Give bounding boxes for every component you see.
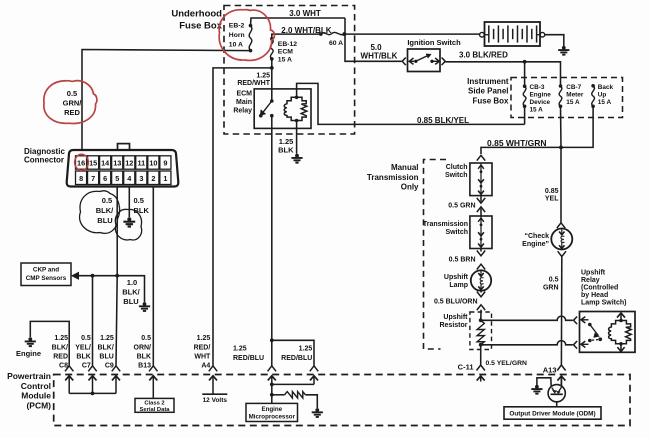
svg-text:2: 2 bbox=[151, 174, 155, 183]
transmission switch box bbox=[470, 216, 492, 249]
vertical 3.0 WHT drop bbox=[344, 18, 346, 34]
wire: 0.5 GRN down to A13 bbox=[560, 257, 562, 366]
ground (1.0 BLK/BLU) bbox=[139, 302, 150, 311]
label: A13 bbox=[543, 365, 557, 374]
ignition switch contacts bbox=[409, 54, 440, 64]
label: 0.5 GRN/RED bbox=[63, 89, 83, 117]
svg-text:0.5: 0.5 bbox=[102, 196, 112, 205]
junction: RED/BLU split bbox=[270, 338, 274, 342]
label: 0.5 GRN bbox=[448, 202, 475, 209]
svg-text:Resistor: Resistor bbox=[439, 322, 467, 329]
svg-text:WHT: WHT bbox=[194, 354, 211, 361]
label: 1.25 RED/WHT bbox=[237, 73, 270, 88]
svg-text:Relay: Relay bbox=[233, 107, 252, 114]
wire: 0.85 YEL down to check engine bbox=[560, 147, 562, 222]
wire: EB-12 to relay and A4 branch bbox=[271, 59, 273, 101]
wire: 3.0 BLK/RED bbox=[445, 62, 560, 86]
svg-text:EB-2: EB-2 bbox=[229, 23, 245, 30]
connector half (relay upper) bbox=[574, 317, 578, 325]
svg-text:RED: RED bbox=[53, 354, 68, 361]
svg-text:1.25: 1.25 bbox=[233, 346, 247, 353]
manual transmission only dashed outline bbox=[424, 160, 447, 350]
svg-text:Fuse Box: Fuse Box bbox=[472, 96, 509, 105]
svg-text:Class 2: Class 2 bbox=[144, 401, 164, 407]
wire: 5.0 WHT/BLK to ignition switch bbox=[345, 34, 402, 61]
svg-text:9: 9 bbox=[163, 159, 167, 168]
svg-text:BLK: BLK bbox=[278, 145, 294, 154]
svg-text:3.0 WHT: 3.0 WHT bbox=[289, 9, 321, 18]
wire: 1.25 BLK/RED C8 to engine ground bbox=[30, 321, 69, 365]
wire: 2.0 WHT/BLK (EB-12 top to 60A link) bbox=[272, 34, 321, 39]
wire: pin 2 down (0.5 ORN/BLK B13) bbox=[152, 187, 154, 366]
svg-text:Fuse Box: Fuse Box bbox=[179, 20, 222, 31]
svg-text:RED: RED bbox=[64, 108, 80, 117]
label: Upshift Lamp bbox=[444, 274, 469, 289]
svg-text:0.5: 0.5 bbox=[141, 335, 151, 342]
svg-text:BLK/: BLK/ bbox=[52, 344, 68, 351]
svg-text:YEL/: YEL/ bbox=[75, 344, 91, 351]
svg-text:by Head: by Head bbox=[581, 292, 608, 299]
svg-text:Main: Main bbox=[236, 99, 252, 106]
CKP and CMP sensors box bbox=[21, 263, 71, 286]
wire: 0.5 GRN/RED (EB-2 bottom to pin 16) bbox=[82, 50, 251, 150]
fusible link 60 A bbox=[319, 32, 346, 47]
transmission switch symbol bbox=[478, 216, 484, 249]
svg-text:12 Volts: 12 Volts bbox=[203, 397, 228, 404]
svg-text:RED/WHT: RED/WHT bbox=[237, 80, 270, 87]
svg-text:B13: B13 bbox=[138, 363, 151, 370]
connector above clutch switch bbox=[477, 155, 485, 160]
svg-text:Switch: Switch bbox=[445, 172, 468, 179]
svg-text:Lamp Switch): Lamp Switch) bbox=[581, 299, 627, 306]
connector half (ignition input) bbox=[402, 58, 406, 66]
wire: 0.5 YEL/BLK C7 bbox=[92, 276, 94, 366]
svg-text:BLK/: BLK/ bbox=[96, 206, 114, 215]
wire: battery to ground bbox=[545, 35, 564, 47]
svg-text:11: 11 bbox=[137, 159, 145, 168]
svg-text:YEL: YEL bbox=[545, 195, 559, 202]
svg-text:Engine”: Engine” bbox=[522, 241, 549, 248]
svg-text:C-11: C-11 bbox=[458, 362, 474, 371]
label: Underhood Fuse Box bbox=[171, 9, 222, 32]
svg-text:CMP Sensors: CMP Sensors bbox=[26, 275, 67, 282]
svg-text:BLU: BLU bbox=[99, 354, 113, 361]
hand-drawn loop around 0.5 BLK/BLU bbox=[80, 191, 120, 233]
label: 1.25 RED/BLU (right) bbox=[281, 346, 312, 362]
wire: transistor to ODM box bbox=[556, 402, 558, 407]
svg-text:RED/BLU: RED/BLU bbox=[281, 355, 312, 362]
svg-text:0.85 WHT/GRN: 0.85 WHT/GRN bbox=[487, 138, 547, 148]
svg-text:15 A: 15 A bbox=[530, 106, 544, 113]
junction: microprocessor feed upper bbox=[270, 383, 274, 387]
svg-text:ECM: ECM bbox=[278, 49, 293, 56]
label: C-11 bbox=[458, 362, 474, 371]
connector pair below transmission bbox=[477, 249, 485, 270]
label: 1.25 RED/BLU (left) bbox=[233, 346, 264, 362]
wire: relay switch output (1.25 RED/BLU run) bbox=[271, 116, 273, 341]
wire: RED/BLU left branch to PCM bbox=[271, 340, 273, 366]
svg-text:Underhood: Underhood bbox=[171, 9, 222, 20]
svg-text:Up: Up bbox=[598, 91, 607, 98]
svg-text:Upshift: Upshift bbox=[443, 314, 468, 321]
svg-text:EB-12: EB-12 bbox=[278, 41, 297, 48]
connector A13 at PCM bbox=[557, 365, 565, 386]
ignition switch box bbox=[408, 49, 441, 72]
label: ECM Main Relay bbox=[233, 90, 252, 114]
class 2 serial data box bbox=[135, 398, 174, 412]
upshift relay box bbox=[580, 312, 636, 353]
label: 0.5 YEL/BLK C7 bbox=[75, 335, 91, 370]
svg-text:GRN: GRN bbox=[543, 284, 559, 291]
svg-text:BLU: BLU bbox=[97, 216, 112, 225]
wire: right RED/BLU join bbox=[272, 383, 314, 385]
label: 1.0 BLK/BLU bbox=[122, 278, 140, 306]
svg-text:7: 7 bbox=[91, 174, 95, 183]
label: Check Engine bbox=[522, 233, 549, 248]
connector C-11 at PCM bbox=[477, 365, 485, 382]
svg-text:BLU: BLU bbox=[123, 297, 138, 306]
ground (ECM relay coil) bbox=[291, 154, 302, 163]
label: Transmission Switch bbox=[423, 221, 468, 236]
red loop around EB-2 fuse bbox=[219, 10, 274, 61]
junction to A4 branch bbox=[270, 66, 274, 70]
connector pair below clutch bbox=[477, 196, 485, 216]
label: Engine bbox=[16, 349, 41, 358]
svg-text:Engine: Engine bbox=[261, 406, 282, 413]
connector B13 into PCM bbox=[149, 366, 157, 399]
wire to battery + terminal bbox=[344, 33, 479, 35]
svg-text:0.5: 0.5 bbox=[134, 196, 144, 205]
wire: 1.25 BLK/BLU C9 bbox=[116, 276, 117, 366]
svg-text:3.0 BLK/RED: 3.0 BLK/RED bbox=[459, 50, 508, 59]
label: 3.0 WHT bbox=[289, 9, 321, 18]
connector half (relay lower) bbox=[574, 341, 578, 349]
svg-text:RED/BLU: RED/BLU bbox=[233, 355, 264, 362]
diagnostic connector pin cells bbox=[76, 156, 171, 185]
label: Clutch Switch bbox=[445, 164, 468, 179]
svg-text:Module: Module bbox=[21, 391, 51, 401]
svg-text:Ignition Switch: Ignition Switch bbox=[407, 38, 461, 47]
svg-text:60 A: 60 A bbox=[329, 40, 343, 47]
wire: 0.85 WHT/GRN to clutch column bbox=[481, 147, 561, 154]
relay switch contacts bbox=[259, 99, 274, 117]
wire: into engine microprocessor bbox=[271, 384, 273, 403]
svg-text:CB-3: CB-3 bbox=[530, 84, 545, 91]
wire: CB-7 down to WHT/GRN junction bbox=[560, 106, 563, 147]
svg-text:15 A: 15 A bbox=[278, 56, 292, 63]
svg-text:Engine: Engine bbox=[530, 91, 552, 98]
fuse Back Up 15A bbox=[591, 84, 613, 108]
svg-text:WHT/BLK: WHT/BLK bbox=[361, 52, 398, 61]
wire: coil to ground 1.25 BLK bbox=[296, 121, 298, 154]
upshift relay coil bbox=[609, 313, 632, 352]
connector below check engine lamp bbox=[558, 251, 566, 256]
red loop around pin 16 bbox=[75, 154, 89, 170]
check engine lamp bbox=[551, 229, 572, 250]
svg-text:Device: Device bbox=[530, 99, 551, 106]
svg-text:Meter: Meter bbox=[566, 91, 584, 98]
label: 1.25 RED/WHT A4 bbox=[194, 335, 211, 370]
wire: sensors line with arrow into box bbox=[72, 272, 145, 302]
svg-text:1: 1 bbox=[163, 174, 167, 183]
wire: RED/BLU right branch bbox=[272, 340, 314, 366]
label: 0.5 BLK/BLU bbox=[96, 196, 114, 225]
ground (battery) bbox=[558, 46, 569, 55]
label: 0.5 GRN (right) bbox=[543, 276, 559, 291]
svg-text:15: 15 bbox=[89, 159, 97, 168]
svg-text:0.5 BLU/ORN: 0.5 BLU/ORN bbox=[434, 298, 478, 305]
junction: pin5/C9 on sensor line bbox=[115, 274, 119, 278]
label: Manual Transmission Only bbox=[367, 163, 419, 192]
instrument side panel fuse box (dashed) bbox=[511, 78, 623, 118]
svg-text:BLK: BLK bbox=[137, 354, 151, 361]
fuse EB-12 ECM 15A bbox=[270, 37, 297, 63]
battery bbox=[480, 22, 545, 46]
svg-text:6: 6 bbox=[103, 174, 107, 183]
svg-text:ORN/: ORN/ bbox=[134, 344, 152, 351]
label: 0.5 BRN bbox=[449, 257, 476, 264]
svg-text:13: 13 bbox=[113, 159, 121, 168]
fuse EB-2 Horn 10A bbox=[229, 23, 253, 53]
connector RED/BLU left into PCM bbox=[268, 366, 276, 385]
svg-text:“Check: “Check bbox=[524, 233, 549, 240]
resistor to ground (PCM) bbox=[272, 392, 318, 408]
fuse CB-3 Engine Device 15A bbox=[523, 84, 551, 114]
svg-text:0.5: 0.5 bbox=[81, 335, 91, 342]
svg-text:Powertrain: Powertrain bbox=[7, 371, 51, 381]
relay switch blade bbox=[588, 323, 602, 343]
svg-text:Engine: Engine bbox=[16, 349, 41, 358]
junction: 3.0WHT/2.0WHT-BLK bbox=[342, 32, 346, 36]
label: Upshift Relay (Controlled by Head Lamp Switch) bbox=[581, 269, 627, 306]
svg-text:A4: A4 bbox=[201, 363, 210, 370]
wire: transistor emitter to ground bbox=[537, 378, 551, 387]
connector above check engine lamp bbox=[557, 223, 565, 228]
junction: resistor branch bbox=[270, 393, 274, 397]
svg-text:1.25: 1.25 bbox=[54, 335, 68, 342]
upshift resistor element bbox=[477, 318, 484, 346]
svg-text:Connector: Connector bbox=[24, 156, 64, 165]
svg-text:(PCM): (PCM) bbox=[26, 400, 51, 410]
svg-text:0.5 BRN: 0.5 BRN bbox=[449, 257, 476, 264]
svg-text:3: 3 bbox=[139, 174, 143, 183]
label: Diagnostic Connector bbox=[24, 147, 65, 165]
wire: pin 5 down (0.5 BLK/BLU) bbox=[116, 187, 118, 276]
label: 0.5 YEL/GRN bbox=[486, 360, 528, 367]
svg-text:1.25: 1.25 bbox=[100, 335, 114, 342]
svg-text:12: 12 bbox=[125, 159, 133, 168]
engine microprocessor box bbox=[246, 403, 298, 421]
svg-text:RED/: RED/ bbox=[194, 344, 211, 351]
svg-text:1.25: 1.25 bbox=[256, 73, 270, 80]
svg-text:10 A: 10 A bbox=[229, 42, 243, 49]
wire: resistor top to relay (with hop) bbox=[481, 316, 573, 320]
label: 1.25 BLK/RED C8 bbox=[52, 335, 68, 370]
svg-text:Upshift: Upshift bbox=[444, 274, 469, 281]
12 volts terminal bbox=[202, 394, 227, 404]
svg-text:Manual: Manual bbox=[391, 163, 419, 172]
connector C7 into PCM bbox=[88, 366, 96, 394]
wire: 1.25 RED/WHT down to PCM A4 bbox=[213, 68, 272, 366]
svg-text:Back: Back bbox=[598, 84, 614, 91]
wire: pin 4 to ground (0.5 BLK) bbox=[128, 187, 130, 218]
svg-text:Serial Data: Serial Data bbox=[140, 407, 171, 413]
svg-text:ECM: ECM bbox=[236, 90, 252, 97]
svg-text:BLK/: BLK/ bbox=[97, 344, 113, 351]
label: 0.5 BLU/ORN bbox=[434, 298, 478, 305]
svg-text:CKP and: CKP and bbox=[33, 267, 59, 274]
connector A4 into PCM bbox=[209, 366, 217, 394]
label: Instrument Side Panel Fuse Box bbox=[467, 77, 509, 105]
svg-text:14: 14 bbox=[101, 159, 110, 168]
connector RED/BLU right into PCM bbox=[310, 366, 318, 385]
label: 2.0 WHT/BLK bbox=[281, 26, 331, 35]
svg-text:Side Panel: Side Panel bbox=[468, 87, 508, 96]
svg-text:Upshift: Upshift bbox=[581, 269, 606, 276]
connector half (ignition output) bbox=[442, 58, 446, 66]
svg-text:1.0: 1.0 bbox=[127, 278, 137, 287]
junction: WHT/GRN node bbox=[559, 146, 563, 150]
upshift resistor dashed box bbox=[470, 312, 492, 350]
svg-text:BLK: BLK bbox=[76, 354, 90, 361]
upshift lamp bbox=[471, 270, 491, 290]
junction: C7 on sensor line bbox=[91, 274, 95, 278]
svg-text:5.0: 5.0 bbox=[370, 43, 382, 52]
svg-text:0.85: 0.85 bbox=[545, 188, 559, 195]
ECM main relay box bbox=[254, 89, 311, 128]
ground (pin 4) bbox=[123, 217, 135, 226]
ground (ODM transistor) bbox=[531, 385, 542, 394]
PCM internal ground bus C8-C7-C9 bbox=[69, 392, 116, 396]
clutch switch box bbox=[470, 163, 492, 196]
connector C8 into PCM bbox=[65, 366, 73, 394]
svg-text:8: 8 bbox=[79, 174, 83, 183]
svg-text:1.25: 1.25 bbox=[299, 346, 313, 353]
clutch switch symbol bbox=[478, 163, 484, 196]
ground (engine) bbox=[25, 337, 36, 346]
junction on BLK/RED feeding CB-3 bbox=[523, 60, 527, 86]
svg-text:15 A: 15 A bbox=[566, 99, 580, 106]
wire: coil to 0.85 BLK/YEL bbox=[297, 83, 525, 124]
svg-text:Switch: Switch bbox=[445, 229, 468, 236]
svg-text:GRN/: GRN/ bbox=[63, 99, 83, 108]
svg-text:Relay: Relay bbox=[581, 277, 600, 284]
svg-text:16: 16 bbox=[77, 159, 85, 168]
wire: 3.0 WHT (EB-2 top to junction) bbox=[251, 18, 346, 26]
svg-text:0.5: 0.5 bbox=[67, 89, 77, 98]
svg-text:10: 10 bbox=[149, 159, 157, 168]
svg-text:C9: C9 bbox=[105, 363, 114, 370]
connector C9 into PCM bbox=[112, 366, 120, 394]
svg-text:1.25: 1.25 bbox=[197, 335, 211, 342]
svg-text:CB-7: CB-7 bbox=[566, 84, 581, 91]
svg-text:0.5: 0.5 bbox=[549, 276, 559, 283]
svg-text:0.5 GRN: 0.5 GRN bbox=[448, 202, 475, 209]
label: 0.85 WHT/GRN bbox=[487, 138, 547, 148]
connector above upshift resistor bbox=[480, 310, 482, 321]
svg-text:Clutch: Clutch bbox=[446, 164, 468, 171]
svg-text:Transmission: Transmission bbox=[423, 221, 468, 228]
svg-text:0.5 YEL/GRN: 0.5 YEL/GRN bbox=[486, 360, 528, 367]
svg-text:BLK/: BLK/ bbox=[122, 288, 140, 297]
svg-text:(Controlled: (Controlled bbox=[581, 284, 618, 291]
wire: A13 into transistor bbox=[560, 376, 562, 386]
connector pair below upshift lamp bbox=[477, 291, 485, 310]
underhood fuse box (dashed) bbox=[224, 6, 355, 135]
svg-text:Control: Control bbox=[21, 381, 51, 391]
svg-text:Only: Only bbox=[401, 183, 419, 192]
label: Powertrain Control Module (PCM) bbox=[7, 371, 51, 410]
label: 0.85 BLK/YEL bbox=[417, 116, 469, 125]
svg-text:0.85 BLK/YEL: 0.85 BLK/YEL bbox=[417, 116, 469, 125]
wire: resistor down to C-11 bbox=[480, 345, 482, 365]
label: 5.0 WHT/BLK bbox=[361, 43, 398, 61]
label: 0.5 ORN/BLK B13 bbox=[134, 335, 152, 370]
svg-text:Transmission: Transmission bbox=[367, 173, 419, 182]
output driver module box bbox=[504, 407, 601, 419]
label: Ignition Switch bbox=[407, 38, 461, 47]
svg-text:Lamp: Lamp bbox=[449, 282, 468, 289]
label: Upshift Resistor bbox=[439, 314, 468, 329]
label: 1.25 BLK/BLU C9 bbox=[97, 335, 113, 370]
svg-text:15 A: 15 A bbox=[598, 99, 612, 106]
label: 0.5 BLK bbox=[134, 196, 150, 215]
wire: Back Up fuse down and left bbox=[561, 106, 593, 147]
wire: resistor bottom to relay (with hop) bbox=[481, 341, 573, 345]
red loop around 0.5 GRN/RED bbox=[44, 81, 97, 124]
svg-text:Output Driver Module (ODM): Output Driver Module (ODM) bbox=[509, 411, 595, 418]
relay entry arrows bbox=[581, 317, 589, 348]
svg-text:5: 5 bbox=[115, 174, 119, 183]
hand-drawn loop around pin-4 ground bbox=[115, 209, 141, 240]
fuse CB-7 Meter 15A bbox=[559, 84, 584, 108]
svg-text:Horn: Horn bbox=[229, 32, 245, 39]
powertrain control module dashed box bbox=[54, 375, 630, 426]
label: 1.25 BLK bbox=[278, 137, 294, 155]
diagnostic connector body bbox=[67, 144, 179, 187]
relay coil bbox=[284, 96, 307, 123]
label: 3.0 BLK/RED bbox=[459, 50, 508, 59]
svg-text:A13: A13 bbox=[543, 365, 557, 374]
svg-text:Instrument: Instrument bbox=[467, 77, 509, 86]
ground (PCM resistor) bbox=[312, 408, 323, 417]
label: 0.85 YEL bbox=[545, 188, 559, 203]
output transistor bbox=[548, 385, 565, 402]
svg-text:Microprocessor: Microprocessor bbox=[249, 413, 296, 420]
